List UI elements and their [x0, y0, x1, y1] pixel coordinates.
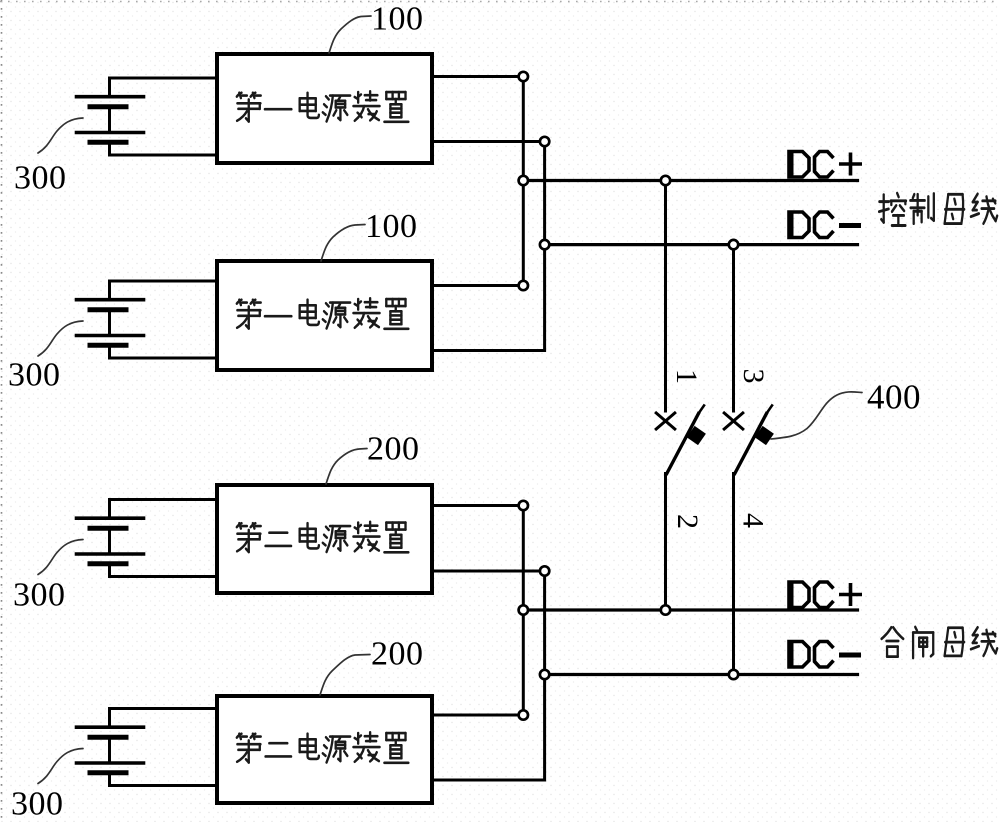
svg-text:2: 2 [671, 514, 704, 529]
svg-text:300: 300 [8, 357, 61, 394]
svg-text:100: 100 [371, 1, 424, 38]
svg-text:300: 300 [14, 160, 67, 197]
svg-text:300: 300 [11, 786, 64, 822]
svg-text:1: 1 [670, 369, 703, 384]
svg-text:4: 4 [737, 513, 770, 528]
svg-text:300: 300 [13, 577, 66, 614]
svg-text:200: 200 [367, 431, 420, 468]
svg-text:200: 200 [371, 636, 424, 673]
svg-text:3: 3 [737, 369, 770, 384]
svg-text:100: 100 [365, 208, 418, 245]
svg-text:400: 400 [867, 378, 921, 417]
